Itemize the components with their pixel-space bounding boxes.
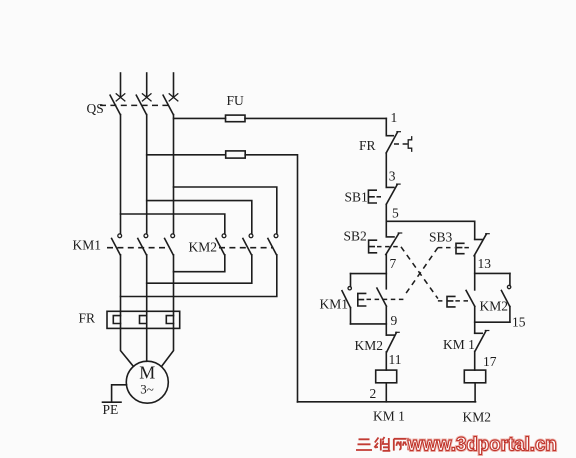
KM1 auxiliary NO contact (self-hold)	[342, 274, 351, 324]
QS mechanical link (dashed)	[100, 104, 170, 106]
svg-text:SB3: SB3	[429, 230, 453, 245]
svg-text:15: 15	[512, 315, 526, 330]
ground PE	[103, 401, 122, 403]
dashed link FR contact to actuator	[394, 143, 408, 145]
wire node 9 segment	[385, 306, 387, 335]
SB3 NC contact in left column (7 to 9)	[377, 288, 387, 306]
disconnect switch QS pole 3 blade	[163, 95, 173, 114]
KM2 mechanical link (dashed)	[219, 247, 274, 249]
svg-text:KM1: KM1	[320, 297, 349, 312]
wire 11 segment	[385, 352, 387, 370]
svg-text:KM1: KM1	[73, 238, 102, 253]
svg-text:7: 7	[390, 256, 397, 271]
KM1 interlock NC contact (15 to 17)	[475, 331, 489, 352]
wire KM1 pole 2 down to FR	[146, 255, 148, 311]
wire tap L3 to KM2 pole 3	[174, 187, 277, 234]
dashed mechanical link SB3 to its NC contact (diagonal)	[406, 248, 438, 294]
wire FR pole 3 to motor	[162, 328, 174, 366]
wire tap L2 to fuse (control supply 2)	[147, 154, 226, 156]
dashed link SB1	[377, 196, 385, 198]
KM2 self-holding branch: top wire at node 13	[475, 272, 510, 274]
wire right column top	[474, 221, 476, 239]
SB3 NC actuator E	[358, 293, 366, 306]
SB2 NC contact in right column (13 to 15)	[466, 290, 475, 306]
svg-text:5: 5	[392, 206, 399, 221]
wire L1 pole down to KM1	[120, 115, 122, 234]
KM2 interlock NC contact (9 to 11)	[386, 332, 399, 352]
supply line L3 with arrow	[169, 73, 178, 101]
wire fuse to node 1 corner	[245, 117, 386, 119]
KM1 self-holding branch: top wire at node 7	[351, 273, 387, 275]
wire lower fuse to control bus corner	[245, 155, 297, 402]
wire 17 segment	[474, 351, 476, 370]
svg-text:9: 9	[391, 313, 398, 328]
dashed link across SB3 NC contact	[367, 298, 405, 300]
contactor KM2 main contact pole 2	[243, 234, 253, 255]
wire tap L3 to fuse FU (control supply 1)	[174, 117, 226, 119]
wire SB3 to node 13	[474, 256, 476, 290]
svg-text:3: 3	[389, 169, 396, 184]
coil KM2	[464, 370, 485, 383]
thermal relay FR normally-closed contact (control)	[386, 132, 400, 153]
motor M 3~	[126, 361, 168, 403]
start button SB3 NO contact (right column)	[474, 234, 489, 256]
wire tap L1 to KM2 pole 1	[121, 214, 225, 234]
supply line L2 with arrow	[142, 73, 151, 101]
start button SB2 NO contact (left column)	[386, 233, 402, 255]
contactor KM2 main contact pole 1	[216, 234, 226, 255]
SB2 push actuator E	[369, 240, 377, 253]
dashed link SB2 to its NO blade	[377, 246, 401, 248]
wire L3 pole down to KM1	[173, 115, 175, 234]
svg-text:1: 1	[391, 110, 398, 125]
wire coil KM2 to bus	[474, 383, 476, 402]
disconnect switch QS pole 2 blade	[136, 95, 146, 114]
svg-text:KM2: KM2	[355, 338, 384, 353]
control bottom bus wire	[298, 401, 476, 403]
FR heater element pole 2	[140, 311, 147, 328]
wire tap L2 to KM2 pole 2	[147, 201, 252, 234]
fuse FU lower	[226, 151, 246, 158]
KM2 self-holding branch: bottom wire at node 15	[475, 321, 510, 323]
wire KM2 pole 2 crossover to phase line 2	[147, 255, 252, 283]
wire SB2 to node 7	[385, 255, 387, 289]
SB2 NC actuator E	[447, 296, 455, 307]
svg-text:2: 2	[370, 386, 377, 401]
wire node 1 corner down	[385, 118, 387, 135]
wire KM2 pole 1 crossover to phase line 3	[174, 255, 225, 272]
contactor KM1 main contact pole 2	[138, 234, 148, 255]
watermark: red logo 三维网 (drawn strokes)	[356, 437, 408, 451]
wire node 15 segment	[474, 306, 476, 333]
KM2 auxiliary NO contact (self-hold)	[501, 273, 510, 322]
disconnect switch QS pole 1 blade	[110, 95, 120, 114]
dashed link across SB2 NC contact	[438, 300, 468, 302]
svg-text:PE: PE	[103, 402, 119, 417]
SB1 push actuator E	[368, 190, 376, 203]
svg-text:11: 11	[389, 352, 402, 367]
svg-text:17: 17	[483, 354, 497, 369]
wire KM2 pole 3 crossover to phase line 1	[121, 255, 277, 297]
wire FR pole 1 to motor	[121, 328, 134, 366]
dashed link SB3	[438, 247, 473, 249]
FR heater element pole 3	[166, 311, 173, 328]
contactor KM1 main contact pole 1	[112, 234, 122, 255]
svg-text:www.3dportal.cn: www.3dportal.cn	[407, 434, 557, 456]
wire motor to PE earth	[112, 385, 127, 402]
KM1 mechanical link (dashed)	[107, 247, 170, 249]
contactor KM2 main contact pole 3	[268, 234, 278, 255]
svg-text:KM2: KM2	[189, 240, 218, 255]
FR heater element pole 1	[113, 311, 120, 328]
svg-text:SB2: SB2	[344, 229, 367, 244]
thermal overload relay FR box	[107, 311, 180, 328]
svg-text:13: 13	[478, 256, 492, 271]
svg-text:M: M	[139, 363, 155, 383]
fuse FU upper	[226, 115, 246, 122]
dashed mechanical link SB2 to its NC contact (diagonal)	[401, 247, 438, 299]
svg-text:KM 1: KM 1	[373, 409, 405, 424]
wire 1-3 segment	[385, 153, 387, 187]
wire FR pole 2 to motor	[146, 328, 148, 361]
svg-text:3~: 3~	[140, 382, 154, 397]
wire node 5 to right branch	[386, 220, 474, 222]
svg-text:FR: FR	[359, 138, 376, 153]
svg-text:FU: FU	[227, 93, 245, 108]
coil KM1	[376, 370, 397, 383]
svg-text:KM 1: KM 1	[443, 337, 475, 352]
svg-text:SB1: SB1	[345, 190, 368, 205]
svg-text:KM2: KM2	[480, 299, 509, 314]
SB3 push actuator E	[456, 243, 464, 253]
svg-text:KM2: KM2	[463, 410, 492, 425]
FR trip actuator symbol	[408, 137, 412, 151]
KM1 self-holding branch: bottom wire at node 9	[351, 323, 387, 325]
svg-text:FR: FR	[79, 311, 96, 326]
contactor KM1 main contact pole 3	[165, 234, 175, 255]
wire L2 pole down to KM1	[146, 115, 148, 234]
wire coil KM1 to bus	[385, 383, 387, 402]
supply line L1 with arrow	[116, 73, 125, 101]
wire KM1 pole 1 down to FR	[120, 255, 122, 311]
stop button SB1 (NC)	[386, 184, 400, 204]
wire SB1 to node 5	[385, 204, 387, 236]
svg-text:QS: QS	[87, 101, 104, 116]
wire KM1 pole 3 down to FR	[173, 255, 175, 311]
